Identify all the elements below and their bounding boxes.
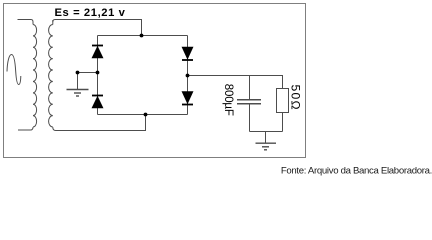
wire: resistor bottom lead: [282, 113, 284, 132]
svg-text:Fonte: Arquivo da Banca Elabor: Fonte: Arquivo da Banca Elaboradora.: [281, 166, 432, 177]
wire: bridge bottom rail: [98, 114, 188, 116]
wire: right ground stem: [265, 132, 267, 144]
svg-text:50Ω: 50Ω: [288, 85, 302, 111]
svg-text:Es = 21,21 v: Es = 21,21 v: [55, 7, 126, 19]
node: bridge top junction: [140, 34, 144, 38]
wire: output rail right node to resistor: [188, 76, 283, 89]
wire: capacitor top lead: [249, 76, 251, 100]
diode D1 (top-left, pointing up): [92, 46, 103, 59]
AC source V1 (sine symbol): [7, 55, 21, 85]
wire: bottom wire cap to resistor: [250, 131, 283, 133]
ground GND1 (left): [67, 90, 89, 97]
node: ground elbow junction: [76, 71, 80, 75]
wire: bottom node to secondary bottom: [58, 115, 146, 131]
wire: secondary top to bridge top node: [53, 20, 142, 36]
wire: bridge top rail: [98, 35, 188, 37]
node: left mid junction: [96, 71, 100, 75]
svg-text:800µF: 800µF: [222, 84, 234, 116]
node: bridge bottom junction: [144, 113, 148, 117]
transformer T1 secondary winding: [49, 20, 58, 131]
wire: left node to ground: [78, 73, 98, 90]
capacitor C1 plates: [237, 100, 261, 104]
diode D4 (bottom-right, pointing down): [182, 92, 193, 105]
wire: capacitor bottom lead: [249, 104, 251, 132]
diode D2 (top-right, pointing down): [182, 47, 193, 60]
wire: bridge right column: [187, 36, 189, 115]
ground GND2 (right): [256, 143, 277, 150]
node: right mid junction: [186, 74, 190, 78]
transformer T1 primary winding: [18, 20, 37, 131]
wire: bridge left column: [97, 36, 99, 115]
resistor R1: [277, 89, 289, 113]
diode D3 (bottom-left, pointing up): [92, 96, 103, 109]
